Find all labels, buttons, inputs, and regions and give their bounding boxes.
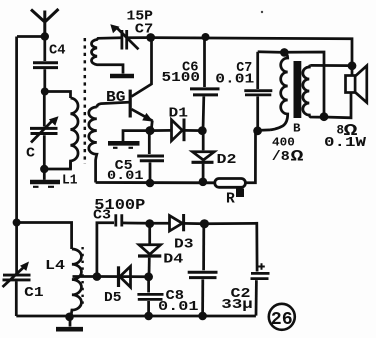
svg-text:B: B (293, 121, 301, 135)
transformer T1 core (dashed) (84, 38, 87, 164)
wire antenna to left rail (17, 35, 45, 38)
speaker (324, 66, 367, 118)
transformer B primary (270, 53, 288, 130)
capacitor C1 (variable) (3, 262, 31, 288)
svg-text:D4: D4 (163, 252, 183, 268)
capacitor C2 electrolytic (251, 263, 270, 315)
diode D5 (119, 266, 131, 287)
node L4 tap junction (93, 272, 102, 281)
wire emitter to ground (123, 131, 150, 141)
svg-text:/8: /8 (272, 149, 290, 165)
wire junction to L1 top (45, 92, 71, 99)
svg-text:D5: D5 (104, 290, 122, 306)
ground below L1 (30, 169, 60, 187)
inductor L1 (71, 98, 79, 169)
node D2 bottom junction (199, 178, 208, 187)
transformer B core (294, 61, 302, 118)
svg-text:0.01: 0.01 (215, 73, 254, 88)
node filter cap bottom junction (198, 312, 207, 321)
diode D1 (150, 119, 202, 142)
capacitor C8 (137, 277, 163, 316)
wire base (97, 102, 129, 107)
transformer B secondary (303, 65, 324, 117)
node antenna junction (41, 32, 49, 40)
inductor L4 (71, 249, 81, 317)
svg-text:0.01: 0.01 (158, 300, 199, 315)
svg-text:0.1W: 0.1W (324, 136, 367, 151)
ground below emitter (108, 143, 140, 148)
node C4/L1 junction (41, 88, 49, 96)
trimmer capacitor C7 15P (110, 24, 146, 49)
wire stub to transformer primary bottom (258, 129, 270, 132)
capacitor detector filter (unlabeled) (188, 224, 218, 316)
node collector top junction (146, 33, 155, 42)
svg-text:26: 26 (271, 310, 293, 330)
wire to C2 branch (204, 223, 257, 271)
svg-text:C1: C1 (24, 285, 43, 301)
resistor R (215, 133, 256, 198)
wire left rail (15, 37, 18, 317)
svg-text:D3: D3 (174, 237, 194, 253)
svg-text:BG: BG (106, 90, 126, 106)
wire to speaker-bottom riser (284, 52, 324, 117)
svg-text:L1: L1 (62, 173, 78, 189)
svg-text:5100: 5100 (162, 71, 201, 86)
svg-text:C3: C3 (93, 209, 111, 224)
wire secondary top to speaker (310, 64, 348, 67)
ground bottom (56, 317, 83, 329)
svg-text:33µ: 33µ (221, 297, 253, 313)
wire L1 bottom (44, 162, 70, 170)
transistor BG (130, 38, 153, 131)
node B primary top junction (280, 48, 289, 57)
node C3/D4 junction (145, 219, 154, 228)
diode D3 (150, 214, 205, 231)
node D1 cathode junction (198, 126, 207, 135)
node speaker top junction (348, 61, 357, 70)
inductor T1 secondary (89, 107, 97, 183)
ground below tickler (110, 74, 134, 79)
svg-text:C7: C7 (135, 21, 154, 37)
capacitor C5 (137, 131, 164, 183)
node C7 bottom junction (253, 126, 262, 135)
svg-text:R: R (226, 191, 235, 208)
wire L4 tap (73, 275, 97, 278)
capacitor C3 (97, 214, 150, 276)
node D3 cathode junction (200, 219, 209, 228)
wire bottom rail (16, 315, 256, 318)
L4 core (dotted) (81, 247, 83, 307)
svg-text:C4: C4 (49, 43, 66, 59)
node L1 bottom junction (40, 165, 48, 173)
node bottom riser junction (320, 112, 329, 121)
diode D2 (192, 131, 215, 182)
svg-text:D1: D1 (169, 106, 189, 122)
capacitor C4 (33, 37, 58, 92)
node D5/C8 junction (144, 272, 153, 281)
antenna (31, 9, 59, 37)
speck (261, 11, 263, 13)
wire top rail (151, 38, 352, 66)
wire second rail (97, 275, 149, 278)
inductor tickler winding (92, 38, 123, 74)
capacitor C6 (190, 37, 220, 131)
node C8 bottom junction (144, 312, 153, 321)
node left rail junction (13, 219, 21, 227)
svg-text:L4: L4 (45, 258, 65, 274)
wire bottom-left section top (17, 223, 72, 250)
svg-text:D2: D2 (217, 152, 237, 168)
svg-text:Ω: Ω (291, 148, 305, 166)
figure number 26 (269, 304, 295, 330)
node emitter junction (146, 126, 155, 135)
svg-text:0.01: 0.01 (107, 169, 144, 183)
wire middle rail (96, 181, 216, 184)
svg-text:C: C (26, 146, 36, 162)
node L4 bottom junction (65, 313, 74, 322)
node C6 top junction (202, 33, 210, 41)
capacitor C7 0.01 (244, 52, 284, 131)
capacitor C (variable) (30, 92, 59, 170)
diode D4 (138, 224, 161, 277)
node C5 bottom junction (146, 179, 155, 188)
